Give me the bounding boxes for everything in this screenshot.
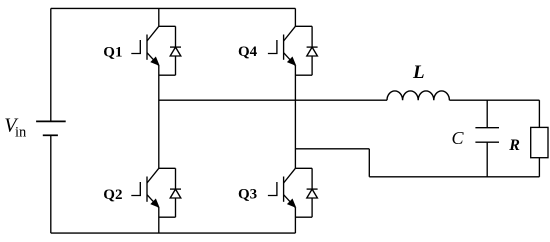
wire: left bridge output to inductor	[159, 99, 387, 101]
diode D1 (freewheel across Q1)	[170, 26, 181, 75]
battery Vin: short negative plate	[43, 134, 58, 136]
svg-text:C: C	[452, 128, 465, 148]
svg-text:R: R	[508, 137, 520, 154]
wire: resistor R bottom lead	[538, 158, 540, 177]
svg-text:Q2: Q2	[103, 187, 122, 203]
svg-text:Q1: Q1	[103, 44, 122, 60]
wire: inductor to load node	[449, 99, 539, 101]
wire: Q4 collector to diode D4 link	[295, 25, 312, 27]
wire: Q1 emitter / D1 anode link	[159, 74, 176, 76]
inductor L	[387, 91, 449, 100]
wire: Q3 emitter / D3 anode link	[295, 216, 312, 218]
battery Vin: long positive plate	[36, 120, 66, 122]
diode D4 (freewheel across Q4)	[307, 26, 318, 75]
transistor Q2 (IGBT)	[131, 168, 159, 207]
wire: resistor R top lead	[538, 100, 540, 127]
wire: Q3 emitter to bottom rail	[294, 208, 296, 234]
wire: left rail upper (Vin+ to top rail)	[50, 8, 52, 121]
diode D3 (freewheel across Q3)	[307, 168, 318, 217]
wire: right bridge output horizontal	[295, 148, 369, 150]
wire: capacitor C bottom lead	[486, 142, 488, 177]
wire: left rail lower (Vin- to bottom rail)	[50, 135, 52, 233]
capacitor C	[475, 128, 499, 143]
wire: top DC rail	[51, 7, 296, 9]
wire: right bridge output drop	[368, 149, 370, 177]
svg-text:Q4: Q4	[238, 44, 258, 60]
wire: Q3 collector to diode D3 link	[295, 167, 312, 169]
diode D2 (freewheel across Q2)	[170, 168, 181, 217]
wire: left leg midpoint (Q1 emitter to Q2 collector)	[158, 66, 160, 169]
wire: bottom load return rail	[369, 176, 539, 178]
wire: right leg midpoint (Q4 emitter to Q3 collector)	[294, 66, 296, 169]
wire: Q2 collector to diode D2 link	[159, 167, 176, 169]
svg-text:Q3: Q3	[238, 187, 257, 203]
resistor R	[531, 127, 548, 157]
wire: bottom DC rail	[51, 232, 296, 234]
svg-text:in: in	[15, 125, 27, 141]
transistor Q1 (IGBT)	[131, 26, 159, 65]
wire: capacitor C top lead	[486, 100, 488, 128]
transistor Q3 (IGBT)	[268, 168, 296, 207]
wire: Q2 emitter / D2 anode link	[159, 216, 176, 218]
wire: Q2 emitter to bottom rail	[158, 208, 160, 234]
wire: Q1 collector to diode D1 link	[159, 25, 176, 27]
svg-text:L: L	[412, 62, 425, 83]
wire: Q1 collector lead from top rail	[158, 8, 160, 26]
wire: Q4 emitter / D4 anode link	[295, 74, 312, 76]
transistor Q4 (IGBT)	[268, 26, 296, 65]
wire: Q4 collector lead from top rail	[294, 8, 296, 26]
